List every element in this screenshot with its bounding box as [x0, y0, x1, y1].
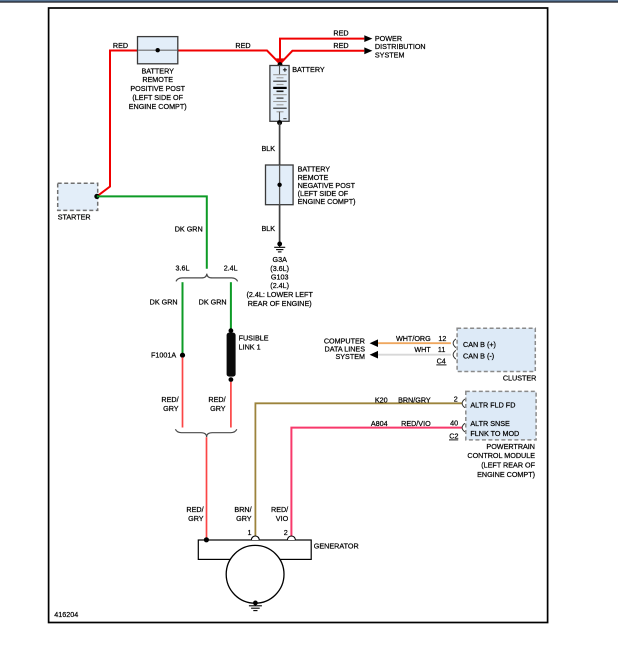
svg-text:BLK: BLK: [262, 224, 276, 233]
node F1001A: [180, 353, 185, 358]
svg-text:(2.4L: LOWER LEFT: (2.4L: LOWER LEFT: [247, 290, 314, 299]
connector C2: [449, 432, 459, 441]
svg-text:ALTR SNSE: ALTR SNSE: [470, 419, 510, 428]
border frame: [49, 8, 548, 623]
svg-text:RED/: RED/: [271, 505, 288, 514]
wire RED positive post to battery: [178, 51, 280, 64]
svg-text:(3.6L): (3.6L): [270, 264, 289, 273]
svg-text:REMOTE: REMOTE: [142, 75, 173, 84]
wire DK GRN starter to split: [97, 196, 207, 268]
svg-text:FUSIBLE: FUSIBLE: [239, 333, 269, 342]
svg-text:DK GRN: DK GRN: [175, 224, 203, 233]
arrow to DISTRIBUTION: [364, 47, 372, 54]
arrowhead into battery: [276, 58, 284, 64]
powertrain control module box: [466, 391, 536, 440]
label RED/VIO (generator): [271, 505, 289, 523]
svg-text:11: 11: [438, 345, 445, 354]
label POWERTRAIN CONTROL MODULE: [467, 442, 535, 479]
fusible link 1: [227, 328, 236, 382]
pcm pin arc 40: [462, 423, 465, 432]
label BRN/GRY (generator): [234, 505, 251, 523]
svg-text:GRY: GRY: [210, 404, 226, 413]
battery remote negative post box: [266, 165, 294, 205]
svg-text:BRN/: BRN/: [234, 505, 251, 514]
svg-text:CONTROL MODULE: CONTROL MODULE: [467, 451, 535, 460]
svg-text:RED: RED: [113, 41, 128, 50]
svg-text:RED: RED: [235, 41, 250, 50]
junction battery bottom: [277, 120, 282, 125]
svg-text:C2: C2: [449, 432, 458, 441]
svg-text:LINK 1: LINK 1: [239, 343, 261, 352]
svg-text:GRY: GRY: [163, 404, 179, 413]
svg-text:REAR OF ENGINE): REAR OF ENGINE): [248, 299, 312, 308]
svg-text:40: 40: [450, 419, 458, 428]
wire RED/VIO pcm to generator pin 2: [291, 428, 462, 538]
connector C4: [436, 357, 446, 366]
svg-text:SYSTEM: SYSTEM: [335, 352, 365, 361]
svg-text:RED/: RED/: [186, 505, 203, 514]
generator: [198, 536, 311, 603]
ground at generator: [249, 601, 262, 611]
wire RED battery to POWER arrow: [280, 39, 364, 64]
svg-text:2: 2: [284, 528, 288, 537]
svg-text:GENERATOR: GENERATOR: [314, 541, 359, 550]
svg-text:C4: C4: [437, 357, 446, 366]
svg-text:RED/: RED/: [161, 395, 178, 404]
wire WHT/ORG to cluster pin 12: [378, 342, 451, 344]
label FUSIBLE LINK 1: [239, 333, 269, 351]
svg-text:(LEFT SIDE OF: (LEFT SIDE OF: [132, 93, 183, 102]
brace merge: [175, 429, 236, 437]
svg-text:K20: K20: [375, 395, 388, 404]
battery remote positive post box: [138, 37, 178, 64]
svg-text:1: 1: [248, 528, 252, 537]
svg-text:CAN B (-): CAN B (-): [463, 352, 494, 361]
svg-text:3.6L: 3.6L: [176, 264, 190, 273]
wire DK GRN right branch: [230, 282, 232, 329]
cluster box: [457, 328, 535, 371]
svg-text:G3A: G3A: [273, 255, 288, 264]
top toolbar edge bar: [0, 0, 618, 2]
svg-text:BLK: BLK: [262, 144, 276, 153]
svg-text:VIO: VIO: [276, 514, 289, 523]
svg-text:POWERTRAIN: POWERTRAIN: [486, 442, 535, 451]
svg-text:A804: A804: [371, 419, 388, 428]
svg-text:ALTR FLD FD: ALTR FLD FD: [470, 400, 515, 409]
label RED/GRY (right): [208, 395, 225, 413]
label POWER DISTRIBUTION SYSTEM: [375, 34, 426, 60]
svg-text:GRY: GRY: [188, 514, 204, 523]
battery B1: [270, 62, 289, 121]
svg-text:F1001A: F1001A: [151, 351, 176, 360]
svg-text:STARTER: STARTER: [58, 213, 91, 222]
svg-text:SYSTEM: SYSTEM: [375, 51, 405, 60]
svg-text:CLUSTER: CLUSTER: [503, 374, 537, 383]
svg-text:2.4L: 2.4L: [224, 264, 238, 273]
svg-text:RED/VIO: RED/VIO: [401, 419, 431, 428]
svg-text:RED: RED: [333, 29, 348, 38]
svg-text:2: 2: [454, 395, 458, 404]
svg-text:BRN/GRY: BRN/GRY: [398, 395, 431, 404]
svg-text:DK GRN: DK GRN: [199, 298, 227, 307]
arrow to computer data lines (lower): [370, 351, 378, 359]
svg-text:(LEFT REAR OF: (LEFT REAR OF: [481, 461, 535, 470]
svg-text:G103: G103: [271, 273, 289, 282]
wire RED from positive post corner down to starter: [97, 51, 138, 197]
svg-text:GRY: GRY: [236, 514, 252, 523]
wire RED/GRY left: [182, 357, 184, 427]
svg-text:BATTERY: BATTERY: [292, 65, 325, 74]
svg-text:416204: 416204: [54, 610, 78, 619]
wire RED/GRY right: [230, 382, 232, 428]
svg-text:ENGINE COMPT): ENGINE COMPT): [298, 197, 356, 206]
svg-text:POSITIVE POST: POSITIVE POST: [130, 84, 185, 93]
brace split 3.6L/2.4L: [176, 274, 238, 282]
cluster pin arc 12: [453, 339, 456, 348]
wire RED battery to DISTRIBUTION arrow: [280, 51, 364, 64]
svg-text:ENGINE COMPT): ENGINE COMPT): [129, 102, 187, 111]
pcm pin arc 2: [462, 399, 465, 408]
label G3A G103: [247, 255, 314, 308]
arrow to POWER: [364, 35, 372, 42]
wire DK GRN left branch: [182, 282, 184, 353]
label battery remote positive post: [129, 66, 187, 110]
wire RED/GRY merged to generator: [206, 437, 208, 539]
svg-text:(2.4L): (2.4L): [270, 281, 289, 290]
svg-text:CAN B (+): CAN B (+): [463, 340, 496, 349]
svg-text:ENGINE COMPT): ENGINE COMPT): [477, 470, 535, 479]
arrow to computer data lines (upper): [370, 339, 378, 347]
svg-text:RED: RED: [333, 41, 348, 50]
svg-text:WHT: WHT: [414, 345, 431, 354]
cluster pin arc 11: [453, 350, 456, 359]
wire BRN/GRY pcm to generator pin 1: [255, 403, 462, 538]
wire BLK battery to negative post: [279, 123, 281, 165]
svg-text:FLNK TO MOD: FLNK TO MOD: [470, 429, 519, 438]
label RED/GRY (generator): [186, 505, 203, 523]
label RED/GRY (left): [161, 395, 178, 413]
svg-text:RED/: RED/: [208, 395, 225, 404]
wire WHT to cluster pin 11: [378, 354, 451, 356]
label battery remote negative post: [298, 165, 356, 207]
svg-text:12: 12: [438, 334, 446, 343]
ground G3A/G103: [274, 242, 285, 252]
svg-text:DK GRN: DK GRN: [150, 298, 178, 307]
svg-text:WHT/ORG: WHT/ORG: [396, 334, 431, 343]
label COMPUTER DATA LINES SYSTEM: [324, 336, 365, 361]
starter box: [58, 183, 100, 210]
wire BLK negative post to ground: [279, 205, 281, 243]
